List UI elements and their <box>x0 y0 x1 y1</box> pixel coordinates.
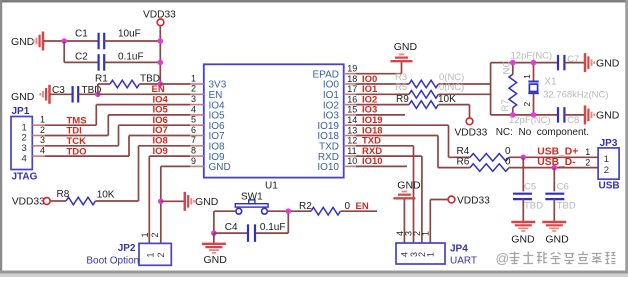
power flag VDD33 (top) <box>143 10 176 26</box>
net label IO5 <box>153 105 169 116</box>
svg-text:10uF: 10uF <box>118 28 141 39</box>
ground GND (JP4) <box>393 179 421 198</box>
svg-text:C1: C1 <box>75 28 88 39</box>
svg-text:2: 2 <box>604 165 609 176</box>
svg-text:JP1: JP1 <box>12 106 30 117</box>
svg-text:2: 2 <box>191 84 196 94</box>
wire IO3 <box>356 114 405 116</box>
svg-text:R4: R4 <box>457 146 470 157</box>
wire SW1 left leg <box>214 211 236 233</box>
resistor R4 <box>457 146 599 161</box>
svg-text:10: 10 <box>347 156 357 166</box>
wire C2 branch vertical <box>63 41 65 62</box>
svg-text:TBD: TBD <box>140 73 160 84</box>
svg-text:R7: R7 <box>500 99 511 111</box>
ground GND (C7) <box>585 53 620 72</box>
label X1 <box>543 77 608 101</box>
wire TXD to JP4 <box>356 146 414 243</box>
svg-text:1: 1 <box>146 252 156 257</box>
wire rail to chip pin 1 <box>160 83 190 85</box>
wire JP4 pin1 VDD <box>430 200 448 244</box>
svg-text:GND: GND <box>195 196 219 208</box>
svg-text:0: 0 <box>345 201 351 212</box>
svg-text:C4: C4 <box>225 222 238 233</box>
value 12pF top <box>511 50 553 61</box>
svg-text:VDD33: VDD33 <box>455 127 488 138</box>
svg-text:0.1uF: 0.1uF <box>260 222 286 233</box>
pin numbers JP1 1-4 <box>40 115 45 156</box>
svg-text:4: 4 <box>40 146 45 156</box>
wire junction to GND symbol <box>161 200 185 202</box>
svg-text:3: 3 <box>40 135 45 145</box>
svg-text:R6: R6 <box>457 157 470 168</box>
IC U1 body <box>204 64 344 191</box>
switch SW1 <box>235 192 268 214</box>
wire C1 to rail <box>104 40 160 42</box>
capacitor C1 <box>75 28 141 49</box>
svg-text:10K: 10K <box>97 190 115 201</box>
wire EPAD to GND <box>356 62 402 74</box>
svg-text:R5: R5 <box>395 82 407 93</box>
svg-text:7: 7 <box>191 135 196 145</box>
svg-text:13: 13 <box>347 125 357 135</box>
net label IO8 <box>153 136 168 147</box>
wire IO18 to R6 <box>356 136 470 168</box>
resistor R3 (NC) <box>356 72 491 88</box>
svg-text:4: 4 <box>191 104 196 114</box>
node junction C5 <box>521 155 527 161</box>
capacitor C2 <box>75 52 144 71</box>
ground GND (C1 row, far left) <box>11 32 43 51</box>
wire R8 to IO8 <box>139 146 191 201</box>
svg-text:12pF(NC): 12pF(NC) <box>509 115 551 126</box>
wire R1 branch vertical <box>97 84 99 94</box>
net label TXD <box>362 136 381 147</box>
svg-text:GND: GND <box>11 91 35 103</box>
power flag VDD33 (JP4) <box>448 195 490 206</box>
capacitor C5 (TBD) <box>513 157 543 221</box>
wire JP4 pin4 <box>403 199 405 243</box>
U1 left pin names <box>209 80 231 173</box>
svg-text:1: 1 <box>522 74 532 79</box>
ground GND (C6) <box>542 222 569 246</box>
svg-text:C5: C5 <box>524 182 536 193</box>
svg-text:TBD: TBD <box>524 201 543 212</box>
wire C3 to EN node <box>78 93 98 95</box>
U1 right pin numbers <box>347 64 357 167</box>
resistor R5 (NC) <box>356 82 491 98</box>
svg-text:6: 6 <box>191 125 196 135</box>
node junction GND <box>158 199 164 205</box>
node junctions R7 <box>510 60 516 118</box>
net label IO19 <box>362 115 383 126</box>
svg-text:GND: GND <box>545 234 569 246</box>
resistor R9 <box>356 94 470 108</box>
svg-text:11: 11 <box>347 146 356 156</box>
net label USB_D+ <box>537 146 578 157</box>
net label IO4 <box>153 94 169 105</box>
wire JP1 pin stubs <box>32 125 45 156</box>
svg-text:12: 12 <box>347 136 357 146</box>
wire IO19 to R4 <box>356 125 470 157</box>
net label USB_D- <box>537 157 576 168</box>
svg-text:Boot Option: Boot Option <box>86 255 139 266</box>
U1 left pin stubs <box>190 84 204 166</box>
value 12pF bottom <box>509 115 551 126</box>
svg-text:GND: GND <box>596 110 620 122</box>
node junction C6 <box>552 165 558 171</box>
svg-text:USB_D+: USB_D+ <box>537 146 578 157</box>
svg-text:GND: GND <box>209 162 231 173</box>
svg-text:17: 17 <box>347 84 357 94</box>
node junction SW1/R2/C4 <box>286 208 292 214</box>
net label IO9 <box>153 146 168 157</box>
connector JP2 <box>139 243 171 265</box>
svg-text:USB_D-: USB_D- <box>537 157 576 168</box>
resistor R7 (NC) <box>500 61 517 115</box>
ground GND (C8) <box>585 105 620 124</box>
node junction C1/rail <box>158 38 164 44</box>
svg-text:19: 19 <box>347 64 357 74</box>
svg-text:USB: USB <box>599 180 620 191</box>
net label IO6 <box>153 115 168 126</box>
label JP2 Boot Option <box>86 243 139 266</box>
svg-text:2: 2 <box>522 102 532 107</box>
wire TCK to IO6 <box>45 125 191 146</box>
svg-text:0(NC): 0(NC) <box>439 82 464 93</box>
svg-text:1: 1 <box>40 115 45 125</box>
capacitor C7 (NC) <box>558 54 579 70</box>
svg-text:32.768kHz(NC): 32.768kHz(NC) <box>543 89 608 100</box>
wire TDI to IO5 <box>45 115 191 136</box>
wire crystal bottom rail <box>491 114 558 116</box>
net label IO0 <box>362 74 377 85</box>
capacitor C4 <box>214 222 288 242</box>
wire chip GND down <box>161 166 191 243</box>
ground GND (EPAD) <box>391 41 418 61</box>
svg-text:1: 1 <box>604 154 609 165</box>
net label TMS <box>67 115 87 126</box>
wire C7 to GND <box>564 62 585 64</box>
net label IO7 <box>153 125 168 136</box>
svg-text:VDD33: VDD33 <box>12 197 45 208</box>
resistor R2 <box>299 201 377 215</box>
node junction EN/R1 <box>95 92 101 98</box>
svg-text:SW1: SW1 <box>241 192 263 203</box>
svg-text:0: 0 <box>505 146 511 157</box>
svg-text:EN: EN <box>356 201 369 212</box>
svg-text:TBD: TBD <box>557 201 576 212</box>
net label IO10 <box>362 156 383 167</box>
power flag VDD33 (R8) <box>12 197 50 208</box>
svg-text:GND: GND <box>394 41 418 53</box>
svg-text:NC: No component.: NC: No component. <box>496 127 589 138</box>
crystal X1 <box>522 63 539 115</box>
svg-text:8: 8 <box>191 146 196 156</box>
ground GND (EN row) <box>11 85 50 104</box>
svg-text:9: 9 <box>191 156 196 166</box>
node junction C2 branch <box>61 38 67 44</box>
wire TMS to IO4 <box>45 105 191 126</box>
svg-text:1: 1 <box>426 252 436 257</box>
resistor R1 <box>95 73 160 87</box>
svg-text:JP4: JP4 <box>450 244 468 255</box>
wire R9 to VDD33 <box>469 105 471 118</box>
svg-text:GND: GND <box>204 254 228 266</box>
wire IO9 to JP2 pin1 <box>149 156 190 243</box>
svg-text:3: 3 <box>191 94 196 104</box>
label JP4 UART <box>450 244 477 267</box>
net label TDI <box>67 126 82 137</box>
note NC <box>496 127 589 138</box>
svg-text:16: 16 <box>347 94 357 104</box>
svg-text:1: 1 <box>191 73 196 83</box>
net label EN (reset) <box>356 201 369 212</box>
capacitor C3 <box>52 85 102 102</box>
svg-text:14: 14 <box>347 115 357 125</box>
wire VDD33 rail vertical <box>159 26 161 84</box>
wire EN to chip pin 2 <box>98 93 191 95</box>
svg-text:GND: GND <box>11 36 35 48</box>
svg-text:IO10: IO10 <box>317 162 339 173</box>
ground GND (near chip) <box>185 192 219 211</box>
pin numbers JP3 <box>585 147 590 167</box>
svg-text:JP2: JP2 <box>118 243 136 254</box>
wire IO10 <box>356 165 407 167</box>
svg-text:GND: GND <box>511 234 535 246</box>
wire GND to C3 <box>50 93 73 95</box>
svg-text:0.1uF: 0.1uF <box>118 52 144 63</box>
net label IO1 <box>362 84 378 95</box>
svg-text:R1: R1 <box>95 73 108 84</box>
svg-text:UART: UART <box>450 256 477 267</box>
wire GND to C1 <box>43 40 98 42</box>
svg-text:GND: GND <box>397 179 421 191</box>
label USB <box>599 180 620 191</box>
svg-text:12pF(NC): 12pF(NC) <box>511 50 553 61</box>
node junction C2/rail <box>158 60 164 66</box>
power flag VDD33 (R9) <box>455 118 488 138</box>
connector JP1 <box>11 106 32 170</box>
svg-text:GND: GND <box>596 57 620 69</box>
wire C8 to GND <box>564 114 585 116</box>
svg-text:X1: X1 <box>544 77 557 88</box>
svg-text:@: @ <box>496 251 510 266</box>
svg-text:VDD33: VDD33 <box>457 195 490 206</box>
net label TDO <box>67 146 87 157</box>
ground GND (C5) <box>511 222 535 246</box>
svg-text:18: 18 <box>347 74 357 84</box>
U1 left pin numbers <box>191 73 196 165</box>
svg-text:4: 4 <box>22 153 27 164</box>
wire SW1 right leg <box>267 211 311 233</box>
wire RXD to JP4 <box>356 156 422 243</box>
svg-text:1: 1 <box>140 232 150 237</box>
connector JP3 <box>598 138 619 179</box>
capacitor C6 (TBD) <box>545 168 576 221</box>
capacitor C8 (NC) <box>558 107 579 126</box>
svg-text:C8: C8 <box>567 115 579 126</box>
net label TCK <box>67 136 87 147</box>
svg-text:U1: U1 <box>265 181 278 192</box>
resistor R8 <box>50 189 138 205</box>
svg-text:1: 1 <box>585 147 590 157</box>
svg-text:R2: R2 <box>299 201 312 212</box>
net label IO2 <box>362 94 377 105</box>
svg-text:1: 1 <box>420 231 430 236</box>
svg-text:2: 2 <box>150 232 160 237</box>
svg-text:2: 2 <box>40 125 45 135</box>
svg-text:2: 2 <box>585 157 590 167</box>
pin numbers JP2 <box>140 232 160 237</box>
svg-text:5: 5 <box>191 115 196 125</box>
svg-text:0: 0 <box>505 157 511 168</box>
net label IO3 <box>362 105 377 116</box>
svg-text:C2: C2 <box>75 52 88 63</box>
ground GND (C4) <box>202 233 227 266</box>
svg-text:C3: C3 <box>52 85 65 96</box>
svg-text:IO9: IO9 <box>153 146 168 157</box>
wire crystal top rail <box>491 62 558 64</box>
wire C2 row <box>64 61 160 63</box>
wire TDO to IO7 <box>45 136 191 157</box>
svg-text:2: 2 <box>156 252 166 257</box>
resistor R6 <box>457 157 599 172</box>
net label EN (pin2) <box>152 84 165 95</box>
svg-text:C6: C6 <box>557 182 569 193</box>
node junction R1/rail/3V3 <box>158 81 164 87</box>
watermark <box>496 251 616 266</box>
net label IO18 <box>362 125 383 136</box>
wire crystal left vertical <box>490 63 492 115</box>
label JTAG <box>12 172 38 183</box>
svg-text:R9: R9 <box>396 94 409 105</box>
node junction C4/GND <box>211 230 217 236</box>
svg-text:15: 15 <box>347 105 357 115</box>
net label RXD <box>362 146 382 157</box>
svg-text:JTAG: JTAG <box>12 172 38 183</box>
U1 right pin names <box>313 69 340 173</box>
svg-text:10K: 10K <box>438 94 456 105</box>
pin numbers JP4 <box>395 231 430 236</box>
node junctions X1 <box>531 60 537 118</box>
connector JP4 <box>396 243 445 264</box>
U1 right pin stubs <box>344 74 359 167</box>
